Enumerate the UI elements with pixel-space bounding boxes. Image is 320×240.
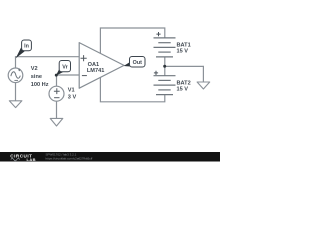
flag Vr pointer [56,69,63,76]
ground (V1) [50,118,63,126]
ground (right, battery mid-point) [197,82,210,89]
op-amp minus input mark [82,75,87,77]
svg-text:sine: sine [31,74,42,80]
svg-text:BAT1: BAT1 [177,42,191,48]
wire: mid junction to right ground [165,66,204,82]
wire: mid junction to BAT2 top [164,66,166,75]
svg-text:100 Hz: 100 Hz [31,82,49,88]
svg-text:15 V: 15 V [177,87,189,93]
svg-text:BAT2: BAT2 [177,80,191,86]
flag Vr box [59,61,70,72]
wire: V2 top to op-amp non-inverting input [16,57,80,68]
BAT1 plus mark [156,32,160,36]
op-amp plus input mark [81,55,87,61]
wire: positive supply rail from op-amp top to BAT1 [100,28,164,54]
watermark bar [0,152,220,162]
V2 minus mark [14,79,18,81]
svg-text:Out: Out [133,60,142,66]
V2 plus mark [18,69,20,71]
svg-text:V1: V1 [68,87,75,93]
svg-text:LM741: LM741 [87,68,104,74]
flag In box [22,40,32,51]
wire: BAT2 bottom to op-amp negative supply [100,77,164,102]
junction node battery midpoint dot [163,65,166,68]
svg-text:LAB: LAB [27,157,36,162]
flag Out box [130,57,146,68]
voltage source V1 body [49,86,64,101]
svg-text:In: In [24,44,29,50]
flag In pointer [16,48,25,59]
BAT2 plus mark [154,71,158,75]
svg-text:15 V: 15 V [177,49,189,55]
wire: V1 top to node Vr and op-amp inverting input [57,75,80,86]
V1 plus mark [54,88,60,94]
svg-text:Vr: Vr [62,65,68,71]
V1 minus mark [54,97,59,99]
ground (V2) [9,101,22,108]
voltage source V2 (sine) body [8,68,23,83]
svg-text:https://circuitlab.com/c2a627f: https://circuitlab.com/c2a627fkb5cff [46,157,93,161]
wire: V1 bottom to ground [56,101,58,118]
flag Out pointer [124,62,134,67]
wire: BAT1 bottom to mid junction [164,57,166,67]
battery BAT2 plates [154,76,176,95]
wire: V2 bottom to ground [15,83,17,101]
battery BAT1 plates [154,38,176,57]
op-amp OA1 LM741 triangle [79,43,124,89]
svg-text:V2: V2 [31,66,38,72]
svg-text:3 V: 3 V [68,94,77,100]
junction node Vr dot [55,74,58,77]
V2 sine squiggle [11,72,20,78]
